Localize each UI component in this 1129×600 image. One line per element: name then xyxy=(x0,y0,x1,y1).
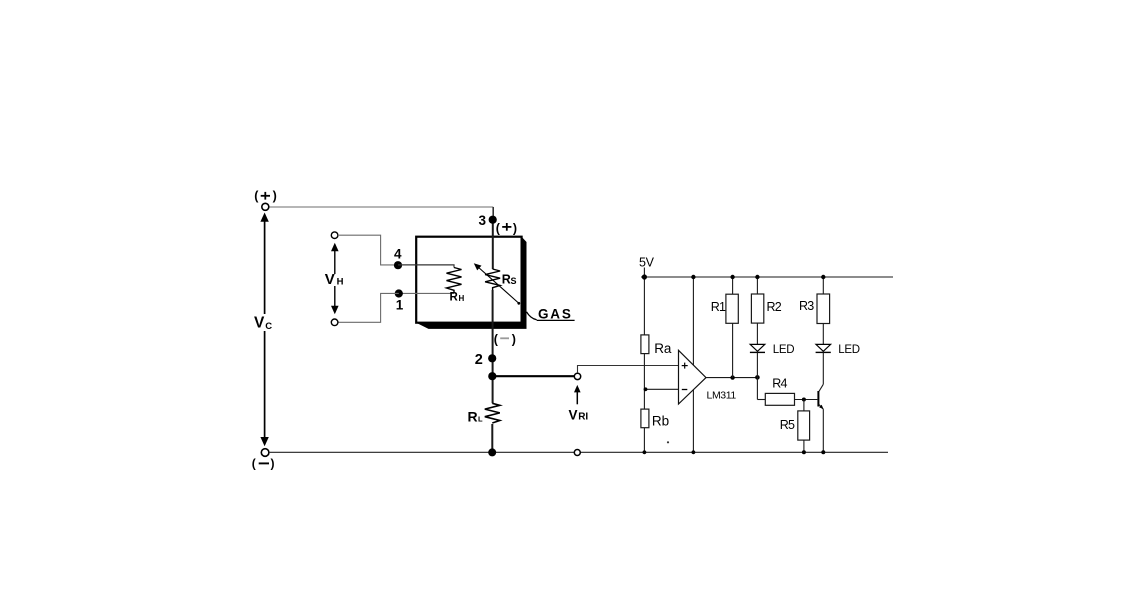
svg-text:LED: LED xyxy=(773,344,794,356)
svg-text:GAS: GAS xyxy=(538,307,573,322)
svg-text:Ra: Ra xyxy=(654,341,672,356)
svg-text:V: V xyxy=(325,271,335,288)
svg-text:R1: R1 xyxy=(711,300,726,314)
svg-text:LM311: LM311 xyxy=(707,389,737,401)
svg-text:R3: R3 xyxy=(799,299,814,313)
svg-text:2: 2 xyxy=(475,352,483,368)
svg-text:1: 1 xyxy=(396,298,404,313)
svg-text:R: R xyxy=(502,273,511,287)
svg-text:V: V xyxy=(254,315,265,332)
svg-text:R5: R5 xyxy=(780,418,795,432)
svg-text:R: R xyxy=(450,292,459,304)
svg-text:4: 4 xyxy=(394,247,402,262)
svg-text:H: H xyxy=(459,294,465,303)
svg-text:(: ( xyxy=(252,457,256,471)
svg-text:3: 3 xyxy=(479,213,487,228)
svg-text:5V: 5V xyxy=(639,256,655,270)
svg-text:): ) xyxy=(271,457,275,471)
svg-text:RI: RI xyxy=(578,411,588,422)
svg-text:): ) xyxy=(273,189,277,203)
svg-text:V: V xyxy=(569,407,578,422)
svg-text:R: R xyxy=(468,408,478,424)
svg-text:R4: R4 xyxy=(772,376,787,390)
svg-text:Rb: Rb xyxy=(652,413,669,428)
svg-text:LED: LED xyxy=(838,344,859,356)
svg-text:L: L xyxy=(478,414,483,423)
svg-text:): ) xyxy=(513,222,517,236)
svg-text:S: S xyxy=(511,276,517,286)
svg-text:R2: R2 xyxy=(767,300,782,314)
svg-text:C: C xyxy=(265,321,272,332)
svg-text:): ) xyxy=(512,332,516,346)
svg-text:H: H xyxy=(337,277,344,288)
